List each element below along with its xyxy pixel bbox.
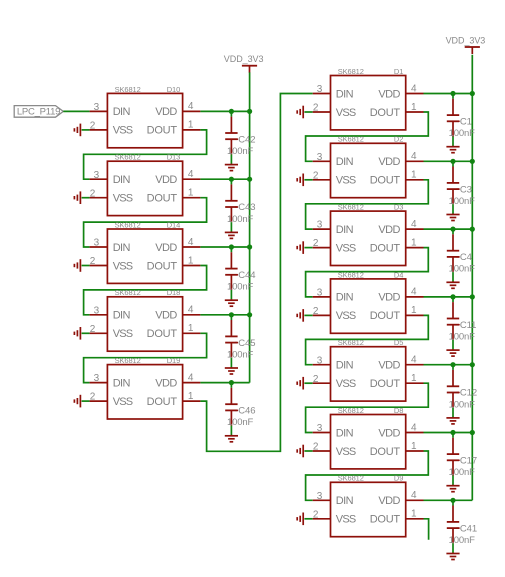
svg-text:2: 2: [313, 374, 319, 385]
svg-text:C43: C43: [238, 202, 255, 213]
svg-text:1: 1: [188, 188, 194, 199]
svg-text:1: 1: [411, 170, 417, 181]
ground GND below C11: [446, 349, 459, 356]
svg-text:DIN: DIN: [113, 174, 131, 186]
svg-text:3: 3: [317, 355, 323, 366]
capacitor C41 100nF: [447, 500, 477, 552]
svg-text:DIN: DIN: [113, 310, 131, 322]
capacitor C44 100nF: [225, 247, 255, 299]
junction C17 tap: [450, 430, 455, 435]
capacitor C1 100nF: [447, 94, 475, 146]
svg-text:C41: C41: [460, 523, 477, 534]
IC D10 SK6812: [90, 85, 201, 148]
svg-text:SK6812: SK6812: [338, 203, 364, 212]
svg-text:100nF: 100nF: [449, 332, 476, 343]
ground GND below C4: [446, 281, 459, 288]
capacitor C17 100nF: [447, 433, 477, 485]
svg-text:3: 3: [317, 288, 323, 299]
ground GND at VSS of D13: [74, 191, 89, 204]
svg-text:VSS: VSS: [336, 107, 356, 119]
svg-text:4: 4: [188, 372, 194, 383]
junction rail row D14: [247, 244, 252, 249]
svg-text:3: 3: [94, 170, 100, 181]
svg-text:SK6812: SK6812: [115, 153, 141, 162]
svg-text:VSS: VSS: [336, 446, 356, 458]
svg-text:DOUT: DOUT: [147, 193, 178, 205]
wire DOUT D10 to DIN D13: [84, 130, 207, 179]
IC D3 SK6812: [313, 203, 424, 266]
svg-text:2: 2: [90, 256, 96, 267]
svg-text:SK6812: SK6812: [338, 338, 364, 347]
svg-text:2: 2: [313, 103, 319, 114]
svg-text:SK6812: SK6812: [338, 270, 364, 279]
svg-text:100nF: 100nF: [449, 196, 476, 207]
svg-text:DOUT: DOUT: [370, 446, 401, 458]
svg-text:VSS: VSS: [336, 175, 356, 187]
wire DOUT D1 to DIN D2: [306, 112, 429, 161]
svg-text:1: 1: [411, 509, 417, 520]
junction rail row D2: [470, 159, 475, 164]
svg-text:3: 3: [94, 102, 100, 113]
svg-text:4: 4: [188, 237, 194, 248]
svg-text:C4: C4: [460, 252, 472, 263]
svg-text:1: 1: [411, 305, 417, 316]
IC D18 SK6812: [90, 288, 201, 351]
svg-text:3: 3: [94, 305, 100, 316]
svg-text:VDD: VDD: [378, 495, 400, 507]
IC D9 SK6812: [313, 474, 424, 537]
svg-text:DOUT: DOUT: [370, 175, 401, 187]
wire DOUT D9 stub: [424, 519, 429, 540]
wire VDD D9 to 3V3 rail: [424, 499, 473, 501]
svg-text:4: 4: [411, 287, 417, 298]
wire VDD D3 to 3V3 rail: [424, 228, 473, 230]
svg-text:VDD_3V3: VDD_3V3: [224, 54, 264, 64]
ground GND at VSS of D18: [74, 327, 89, 340]
svg-text:VSS: VSS: [113, 396, 133, 408]
svg-text:DIN: DIN: [113, 106, 131, 118]
svg-text:VSS: VSS: [336, 378, 356, 390]
svg-text:4: 4: [411, 151, 417, 162]
ground GND below C17: [446, 485, 459, 492]
svg-text:C44: C44: [238, 270, 255, 281]
junction rail row D18: [247, 312, 252, 317]
svg-text:VSS: VSS: [113, 328, 133, 340]
svg-text:C45: C45: [238, 338, 255, 349]
svg-text:100nF: 100nF: [449, 399, 476, 410]
IC D1 SK6812: [313, 67, 424, 130]
svg-text:D4: D4: [394, 270, 403, 279]
svg-text:SK6812: SK6812: [338, 67, 364, 76]
junction C43 tap: [229, 177, 234, 182]
ground GND at VSS of D1: [297, 106, 313, 119]
ground GND at VSS of D5: [297, 377, 313, 390]
IC D14 SK6812: [90, 220, 201, 283]
IC D5 SK6812: [313, 338, 424, 401]
capacitor C43 100nF: [225, 179, 255, 231]
capacitor C42 100nF: [225, 111, 255, 163]
net flag LPC_P119: [14, 106, 63, 118]
svg-text:3: 3: [94, 373, 100, 384]
svg-text:1: 1: [188, 391, 194, 402]
svg-text:4: 4: [188, 305, 194, 316]
capacitor C3 100nF: [447, 161, 475, 213]
IC D8 SK6812: [313, 406, 424, 469]
ground GND below C45: [225, 367, 238, 374]
ground GND at VSS of D19: [74, 395, 89, 408]
svg-text:1: 1: [411, 237, 417, 248]
svg-text:100nF: 100nF: [449, 264, 476, 275]
svg-text:VDD_3V3: VDD_3V3: [446, 35, 486, 45]
wire VDD_3V3 left rail: [249, 72, 251, 382]
svg-text:SK6812: SK6812: [115, 288, 141, 297]
svg-text:2: 2: [313, 306, 319, 317]
svg-text:1: 1: [411, 441, 417, 452]
svg-text:100nF: 100nF: [227, 349, 254, 360]
IC D13 SK6812: [90, 153, 201, 216]
ground GND at VSS of D10: [74, 124, 89, 137]
junction rail row D10: [247, 109, 252, 114]
svg-text:SK6812: SK6812: [338, 406, 364, 415]
capacitor C4 100nF: [447, 229, 475, 281]
svg-text:4: 4: [411, 355, 417, 366]
svg-text:100nF: 100nF: [449, 467, 476, 478]
ground GND at VSS of D2: [297, 174, 313, 187]
wire DOUT D14 to DIN D18: [84, 266, 207, 315]
svg-text:2: 2: [313, 238, 319, 249]
svg-text:SK6812: SK6812: [338, 135, 364, 144]
ground GND at VSS of D8: [297, 445, 313, 458]
svg-text:3: 3: [317, 220, 323, 231]
wire VDD D2 to 3V3 rail: [424, 160, 473, 162]
wire VDD D18 to 3V3 rail: [200, 314, 249, 316]
junction rail row D3: [470, 227, 475, 232]
svg-text:DOUT: DOUT: [147, 260, 178, 272]
junction C3 tap: [450, 159, 455, 164]
svg-text:4: 4: [411, 219, 417, 230]
junction C46 tap: [229, 380, 234, 385]
svg-text:DOUT: DOUT: [147, 125, 178, 137]
svg-text:100nF: 100nF: [449, 128, 476, 139]
capacitor C46 100nF: [225, 383, 255, 435]
svg-text:3: 3: [317, 423, 323, 434]
IC D2 SK6812: [313, 135, 424, 198]
wire DOUT D8 to DIN D9: [306, 451, 429, 500]
junction rail row D5: [470, 362, 475, 367]
svg-text:SK6812: SK6812: [115, 85, 141, 94]
wire VDD D13 to 3V3 rail: [200, 178, 249, 180]
svg-text:3: 3: [317, 491, 323, 502]
svg-text:DIN: DIN: [336, 88, 354, 100]
svg-text:2: 2: [90, 188, 96, 199]
svg-text:1: 1: [188, 323, 194, 334]
svg-text:4: 4: [411, 490, 417, 501]
svg-text:DIN: DIN: [336, 427, 354, 439]
junction rail row D13: [247, 177, 252, 182]
junction C12 tap: [450, 362, 455, 367]
wire DOUT D3 to DIN D4: [306, 248, 429, 297]
wire DOUT D2 to DIN D3: [306, 180, 429, 229]
svg-text:VDD: VDD: [155, 310, 177, 322]
ground GND below C46: [225, 435, 238, 442]
svg-text:DOUT: DOUT: [370, 242, 401, 254]
svg-text:D3: D3: [394, 203, 403, 212]
junction rail row D4: [470, 294, 475, 299]
junction C41 tap: [450, 498, 455, 503]
svg-text:DOUT: DOUT: [147, 396, 178, 408]
svg-text:DIN: DIN: [113, 377, 131, 389]
svg-text:100nF: 100nF: [227, 417, 254, 428]
svg-text:D2: D2: [394, 135, 403, 144]
wire VDD D1 to 3V3 rail: [424, 93, 473, 95]
svg-text:1: 1: [188, 255, 194, 266]
wire DOUT D5 to DIN D8: [306, 383, 429, 432]
svg-text:C11: C11: [460, 320, 476, 331]
svg-text:VDD: VDD: [378, 360, 400, 372]
svg-text:DIN: DIN: [113, 242, 131, 254]
svg-text:D1: D1: [394, 67, 403, 76]
svg-text:DOUT: DOUT: [370, 310, 401, 322]
svg-text:4: 4: [411, 83, 417, 94]
ground GND below C43: [225, 231, 238, 238]
svg-text:1: 1: [411, 102, 417, 113]
wire DOUT D18 to DIN D19: [84, 333, 207, 382]
svg-text:DOUT: DOUT: [147, 328, 178, 340]
ground GND below C44: [225, 299, 238, 306]
svg-text:DIN: DIN: [336, 360, 354, 372]
svg-text:2: 2: [313, 442, 319, 453]
power symbol VDD_3V3 (left rail): [224, 54, 264, 73]
capacitor C11 100nF: [447, 297, 477, 349]
svg-text:VDD: VDD: [155, 106, 177, 118]
capacitor C45 100nF: [225, 315, 255, 367]
wire VDD D4 to 3V3 rail: [424, 296, 473, 298]
ground GND below C41: [446, 553, 459, 560]
svg-text:DOUT: DOUT: [370, 378, 401, 390]
svg-text:2: 2: [90, 121, 96, 132]
svg-text:SK6812: SK6812: [115, 356, 141, 365]
svg-text:VSS: VSS: [113, 125, 133, 137]
ground GND at VSS of D4: [297, 309, 313, 322]
power symbol VDD_3V3 (right rail): [446, 35, 486, 54]
svg-text:VDD: VDD: [378, 156, 400, 168]
svg-text:DIN: DIN: [336, 156, 354, 168]
svg-text:100nF: 100nF: [227, 282, 254, 293]
junction C1 tap: [450, 91, 455, 96]
svg-text:VDD: VDD: [378, 224, 400, 236]
svg-text:VDD: VDD: [378, 292, 400, 304]
wire VDD D19 to 3V3 rail: [200, 382, 249, 384]
svg-text:2: 2: [313, 509, 319, 520]
svg-text:DOUT: DOUT: [370, 107, 401, 119]
wire DOUT D19 to DIN D1 (bottom link): [200, 94, 312, 452]
IC D4 SK6812: [313, 270, 424, 333]
ground GND at VSS of D14: [74, 259, 89, 272]
svg-text:LPC_P119: LPC_P119: [17, 107, 60, 118]
svg-text:D10: D10: [167, 85, 180, 94]
svg-text:C12: C12: [460, 388, 477, 399]
wire VDD_3V3 right rail: [471, 55, 473, 501]
svg-text:C42: C42: [238, 134, 255, 145]
svg-text:VDD: VDD: [378, 88, 400, 100]
svg-text:DOUT: DOUT: [370, 514, 401, 526]
svg-text:SK6812: SK6812: [338, 474, 364, 483]
svg-text:1: 1: [411, 373, 417, 384]
ground GND below C42: [225, 164, 238, 171]
wire DOUT D4 to DIN D5: [306, 315, 429, 364]
junction rail row D8: [470, 430, 475, 435]
wire VDD D10 to 3V3 rail: [200, 110, 249, 112]
svg-text:D8: D8: [394, 406, 403, 415]
ground GND at VSS of D9: [297, 513, 313, 526]
IC D19 SK6812: [90, 356, 201, 419]
svg-text:C1: C1: [460, 117, 472, 128]
junction C42 tap: [229, 109, 234, 114]
svg-text:VSS: VSS: [336, 310, 356, 322]
svg-text:DIN: DIN: [336, 224, 354, 236]
wire DOUT D13 to DIN D14: [84, 198, 207, 247]
svg-text:3: 3: [317, 84, 323, 95]
junction C45 tap: [229, 312, 234, 317]
svg-text:SK6812: SK6812: [115, 220, 141, 229]
junction C4 tap: [450, 227, 455, 232]
svg-text:100nF: 100nF: [227, 214, 254, 225]
junction C11 tap: [450, 294, 455, 299]
svg-text:C46: C46: [238, 406, 255, 417]
svg-text:4: 4: [411, 422, 417, 433]
svg-text:100nF: 100nF: [227, 146, 254, 157]
svg-text:1: 1: [188, 120, 194, 131]
svg-text:D14: D14: [167, 220, 180, 229]
svg-text:2: 2: [90, 324, 96, 335]
ground GND below C1: [446, 146, 459, 153]
wire VDD D8 to 3V3 rail: [424, 432, 473, 434]
svg-text:2: 2: [313, 170, 319, 181]
svg-text:VSS: VSS: [113, 193, 133, 205]
svg-text:D5: D5: [394, 338, 403, 347]
svg-text:DIN: DIN: [336, 495, 354, 507]
svg-text:VDD: VDD: [378, 427, 400, 439]
ground GND at VSS of D3: [297, 241, 313, 254]
wire LPC_P119 to DIN D10: [63, 110, 89, 112]
svg-text:4: 4: [188, 101, 194, 112]
svg-text:2: 2: [90, 392, 96, 403]
svg-text:4: 4: [188, 169, 194, 180]
svg-text:VDD: VDD: [155, 377, 177, 389]
svg-text:D19: D19: [167, 356, 180, 365]
capacitor C12 100nF: [447, 365, 477, 417]
svg-text:VSS: VSS: [113, 260, 133, 272]
junction C44 tap: [229, 244, 234, 249]
svg-text:DIN: DIN: [336, 292, 354, 304]
svg-text:100nF: 100nF: [449, 535, 476, 546]
svg-text:D18: D18: [167, 288, 180, 297]
svg-text:3: 3: [317, 152, 323, 163]
svg-text:D9: D9: [394, 474, 403, 483]
svg-text:VSS: VSS: [336, 242, 356, 254]
svg-text:3: 3: [94, 238, 100, 249]
svg-text:C17: C17: [460, 456, 477, 467]
ground GND below C12: [446, 417, 459, 424]
svg-text:D13: D13: [167, 153, 180, 162]
svg-text:VDD: VDD: [155, 242, 177, 254]
svg-text:VDD: VDD: [155, 174, 177, 186]
svg-text:VSS: VSS: [336, 514, 356, 526]
wire VDD D5 to 3V3 rail: [424, 364, 473, 366]
junction rail row D1: [470, 91, 475, 96]
ground GND below C3: [446, 214, 459, 221]
wire VDD D14 to 3V3 rail: [200, 246, 249, 248]
svg-text:C3: C3: [460, 184, 472, 195]
